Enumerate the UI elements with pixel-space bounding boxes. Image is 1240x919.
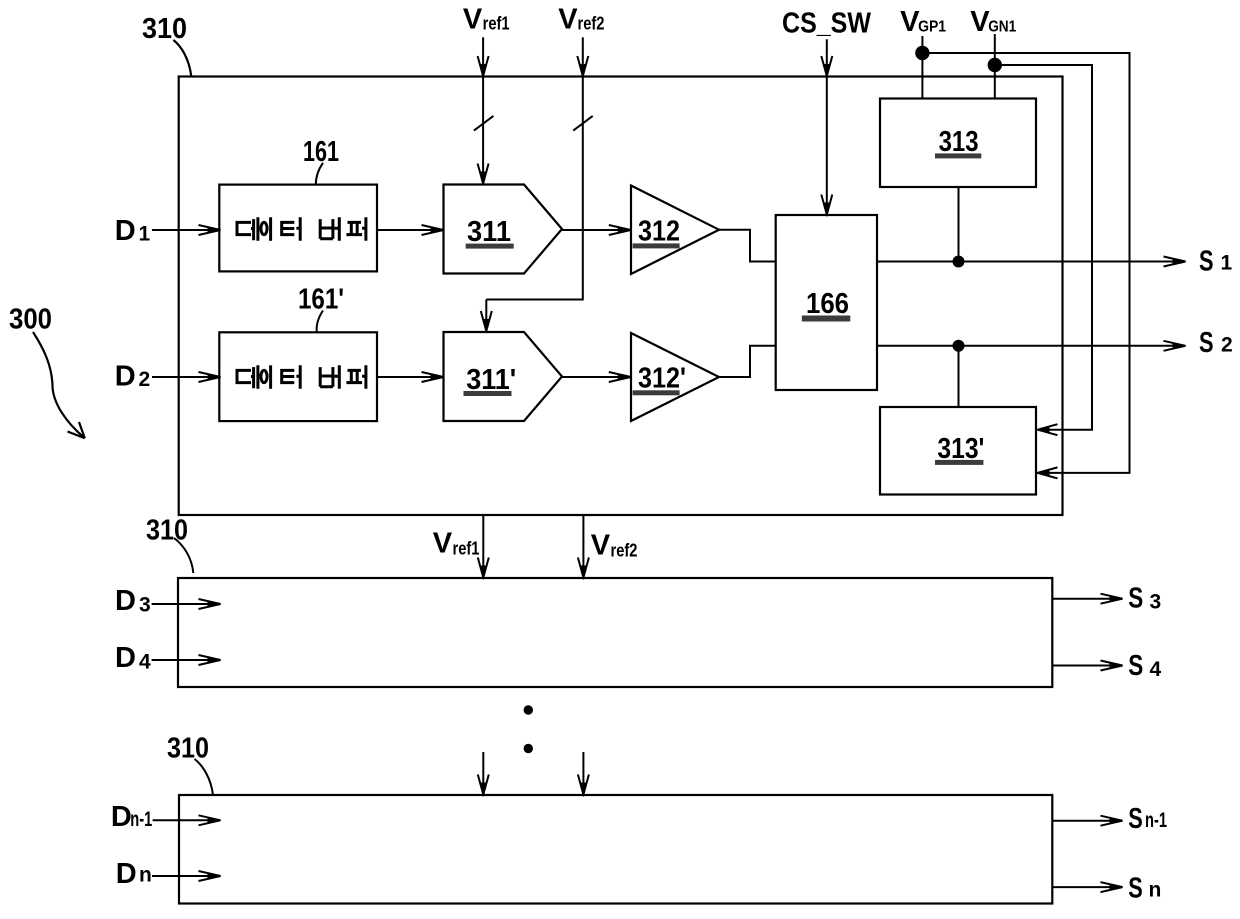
label VGN1 xyxy=(970,6,1016,38)
svg-text:312': 312' xyxy=(638,363,686,395)
svg-text:300: 300 xyxy=(9,304,52,336)
wire D4 input xyxy=(152,659,220,661)
wire Vref1 to second box xyxy=(482,515,484,577)
data buffer 161 box xyxy=(219,185,377,272)
wire VGP1 to 313 xyxy=(921,36,923,99)
svg-text:3: 3 xyxy=(139,594,151,617)
underline 313 xyxy=(935,153,981,158)
svg-text:310: 310 xyxy=(167,733,209,765)
block 310 second box xyxy=(178,578,1052,687)
data buffer 161' korean text xyxy=(237,365,366,389)
svg-text:S: S xyxy=(1128,650,1143,682)
block 313' box xyxy=(880,407,1036,495)
svg-text:ref2: ref2 xyxy=(578,13,605,33)
svg-text:D: D xyxy=(115,585,136,617)
switch block 166 box xyxy=(776,215,877,390)
ellipsis dot 2 xyxy=(524,744,533,753)
wire CS_SW into box xyxy=(826,39,828,75)
wire VGN1 to 313 xyxy=(994,34,996,99)
leader to second box xyxy=(174,538,193,573)
label D4 xyxy=(115,642,151,674)
data buffer 161 korean text xyxy=(237,217,366,241)
svg-text:n-1: n-1 xyxy=(1145,809,1167,832)
svg-text:V: V xyxy=(591,529,611,561)
svg-text:310: 310 xyxy=(146,515,188,547)
underline 311' xyxy=(464,391,512,396)
svg-text:V: V xyxy=(463,3,483,35)
bus slash Vref2 xyxy=(573,116,593,131)
bus slash Vref1 xyxy=(474,116,494,131)
block 310 outer box (first stage) xyxy=(179,77,1063,516)
block 313 box xyxy=(880,99,1036,188)
wire 311' to 312' xyxy=(562,376,630,378)
data buffer 161' box xyxy=(219,332,377,421)
wire feedback VGP1 to 313' lower input xyxy=(922,53,1129,473)
label S4 xyxy=(1128,650,1161,682)
svg-text:3: 3 xyxy=(1150,591,1162,614)
label D1 xyxy=(115,215,151,247)
leader 161' xyxy=(317,311,323,333)
wire S2 node to 313' xyxy=(958,346,960,407)
underline 166 xyxy=(802,316,851,322)
wire 312' to 166 xyxy=(719,346,776,377)
wire Dn input xyxy=(152,875,220,877)
label Vref2 (top) xyxy=(558,3,604,35)
label Vref2 (mid) xyxy=(591,529,638,561)
label D2 xyxy=(115,361,150,393)
svg-text:GN1: GN1 xyxy=(988,19,1016,36)
svg-text:ref1: ref1 xyxy=(483,13,510,33)
wire S3 output xyxy=(1052,598,1122,600)
leader from 310 to box corner xyxy=(173,40,191,77)
svg-text:1: 1 xyxy=(1221,252,1233,275)
label VGP1 xyxy=(900,6,946,38)
svg-text:V: V xyxy=(900,6,920,38)
svg-text:D: D xyxy=(115,361,136,393)
label Vref1 (mid) xyxy=(433,528,480,560)
leader 161 xyxy=(316,163,323,185)
leader to third box xyxy=(195,759,214,795)
svg-text:S: S xyxy=(1128,803,1143,835)
amplifier 312 triangle xyxy=(631,186,719,275)
svg-text:4: 4 xyxy=(1150,658,1162,681)
svg-text:166: 166 xyxy=(806,288,849,320)
label S1 xyxy=(1199,246,1233,278)
label Sn-1 xyxy=(1128,803,1167,835)
svg-text:n-1: n-1 xyxy=(130,808,152,831)
wire 312 to 166 xyxy=(719,230,776,262)
svg-text:2: 2 xyxy=(139,368,151,391)
wire CS_SW to 166 xyxy=(826,77,828,215)
label Dn xyxy=(116,858,152,890)
label Dn-1 xyxy=(111,801,153,833)
label S2 xyxy=(1199,327,1233,359)
wire Vref2 to third box xyxy=(582,752,584,794)
ellipsis dot 1 xyxy=(524,705,533,714)
svg-text:V: V xyxy=(558,3,578,35)
comparator 311' pentagon xyxy=(444,332,563,421)
wire buffer1 to 311 xyxy=(377,229,443,231)
svg-text:D: D xyxy=(111,801,132,833)
underline 312' xyxy=(633,390,680,395)
node dot VGP1 xyxy=(915,46,929,60)
block 310 third box xyxy=(179,795,1052,904)
wire D3 input xyxy=(152,603,220,605)
svg-text:S: S xyxy=(1128,873,1143,905)
wire 311 to 312 xyxy=(562,229,630,231)
wire feedback VGN1 to 313' upper input xyxy=(995,65,1092,430)
svg-text:310: 310 xyxy=(142,13,187,45)
wire Vref1 into box xyxy=(482,37,484,75)
underline 313' xyxy=(935,460,983,465)
wire Vref1 to 311 xyxy=(482,77,484,184)
comparator 311 pentagon xyxy=(444,185,563,274)
wire S2 output xyxy=(877,345,1185,347)
svg-text:S: S xyxy=(1128,582,1143,614)
wire Sn output xyxy=(1052,886,1122,888)
node dot S1 xyxy=(953,256,965,268)
svg-text:ref1: ref1 xyxy=(453,539,480,559)
svg-text:2: 2 xyxy=(1221,334,1233,357)
label Vref1 (top) xyxy=(463,3,510,35)
svg-text:311: 311 xyxy=(467,216,511,248)
wire Vref2 down and over to 311' xyxy=(486,77,583,300)
wire D1 input xyxy=(152,229,220,231)
svg-text:1: 1 xyxy=(139,223,151,246)
node dot S2 xyxy=(953,340,965,352)
amplifier 312' triangle xyxy=(631,333,719,421)
wire Vref1 to third box xyxy=(482,752,484,794)
svg-text:161: 161 xyxy=(303,136,339,168)
svg-text:4: 4 xyxy=(139,651,151,674)
svg-text:312: 312 xyxy=(638,215,680,247)
wire S1 output xyxy=(877,261,1185,263)
underline 311 xyxy=(466,244,514,249)
svg-text:161': 161' xyxy=(298,284,344,316)
label S3 xyxy=(1128,582,1161,614)
wire Vref2 into box xyxy=(582,37,584,75)
label Sn xyxy=(1128,873,1161,905)
wire Dn-1 input xyxy=(153,819,220,821)
node dot VGN1 xyxy=(988,58,1002,72)
svg-text:n: n xyxy=(139,863,152,886)
svg-text:S: S xyxy=(1199,327,1214,359)
wire D2 input xyxy=(152,376,220,378)
svg-text:CS_SW: CS_SW xyxy=(782,8,872,40)
svg-text:GP1: GP1 xyxy=(918,19,946,36)
leader arrow from 300 xyxy=(33,332,85,438)
svg-text:D: D xyxy=(116,858,137,890)
wire S4 output xyxy=(1052,665,1122,667)
wire buffer2 to 311' xyxy=(377,376,443,378)
wire Vref2 to second box xyxy=(582,515,584,577)
wire Sn-1 output xyxy=(1052,820,1122,822)
label D3 xyxy=(115,585,151,617)
svg-text:V: V xyxy=(433,528,453,560)
underline 312 xyxy=(633,243,680,248)
svg-text:S: S xyxy=(1199,246,1214,278)
svg-text:ref2: ref2 xyxy=(611,540,638,560)
svg-text:D: D xyxy=(115,642,136,674)
svg-text:D: D xyxy=(115,215,136,247)
svg-text:n: n xyxy=(1149,879,1162,902)
wire 313 to S1 node xyxy=(958,187,960,262)
